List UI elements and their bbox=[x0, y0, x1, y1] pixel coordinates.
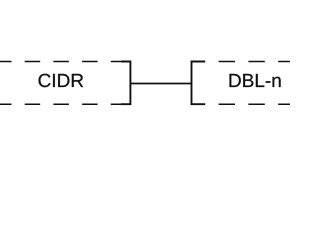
label CIDR bbox=[39, 74, 84, 87]
box DBL-n bottom dashed border bbox=[205, 103, 294, 105]
box CIDR right bracket bbox=[121, 62, 130, 105]
box CIDR top dashed border bbox=[0, 61, 126, 63]
box CIDR bottom dashed border bbox=[0, 103, 126, 105]
label DBL-n bbox=[230, 74, 281, 87]
box DBL-n left bracket bbox=[192, 62, 206, 105]
box DBL-n top dashed border bbox=[205, 61, 294, 63]
wire connector bbox=[130, 83, 191, 85]
diagram: dashed box CIDR linked to dashed box DBL-n bbox=[0, 0, 290, 158]
